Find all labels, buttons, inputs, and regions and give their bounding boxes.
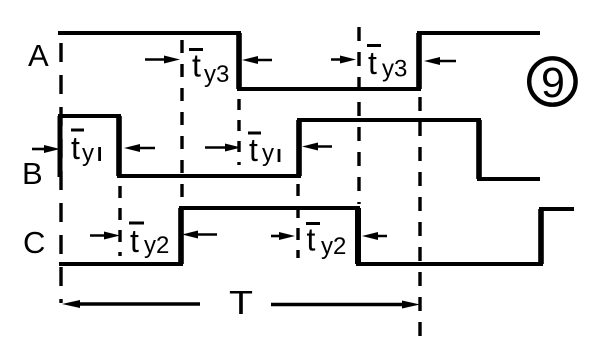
waveform C bbox=[59, 208, 574, 264]
svg-text:y2: y2 bbox=[144, 232, 169, 259]
dashed marker x=238 (A fall) bbox=[237, 99, 240, 165]
label ty3 first bbox=[189, 48, 229, 89]
label ty2 first bbox=[129, 223, 169, 259]
arrow ty3 second right bbox=[424, 57, 456, 65]
svg-text:y2: y2 bbox=[321, 233, 346, 260]
svg-text:t: t bbox=[192, 48, 201, 84]
label ty3 second bbox=[367, 45, 407, 83]
dashed marker x=60 (t0) bbox=[59, 43, 62, 303]
figure number 9 (circled) bbox=[529, 58, 575, 107]
svg-text:y: y bbox=[82, 140, 94, 167]
arrow ty2 first left bbox=[90, 232, 120, 240]
svg-text:y: y bbox=[262, 140, 274, 167]
arrow ty1 second right bbox=[302, 143, 332, 151]
waveform A bbox=[58, 33, 540, 89]
arrow ty2 first right bbox=[182, 231, 217, 239]
dimension line T left segment with left arrowhead bbox=[62, 300, 200, 308]
svg-text:C: C bbox=[23, 225, 45, 260]
svg-text:A: A bbox=[28, 38, 49, 73]
label ty1 second bbox=[248, 132, 280, 168]
svg-text:t: t bbox=[307, 222, 316, 258]
svg-text:y3: y3 bbox=[382, 56, 407, 83]
arrow ty1 first right bbox=[124, 144, 155, 152]
waveform B bbox=[60, 116, 540, 179]
arrow ty3 first right bbox=[242, 56, 272, 64]
arrow ty1 second left bbox=[205, 144, 241, 152]
arrow ty3 first left bbox=[145, 56, 180, 64]
dashed marker x=181 (C rise) bbox=[180, 40, 183, 200]
label ty2 second bbox=[306, 222, 346, 261]
arrow ty3 second left bbox=[331, 56, 356, 64]
arrow ty2 second right bbox=[362, 232, 387, 240]
label ty1 first bbox=[71, 130, 101, 167]
dashed marker x=420 (A rise / T end) bbox=[418, 97, 421, 338]
dashed marker x=119 (B fall) bbox=[118, 186, 121, 256]
svg-text:t: t bbox=[71, 130, 80, 166]
svg-text:T: T bbox=[229, 284, 253, 321]
svg-text:t: t bbox=[130, 223, 139, 259]
svg-text:B: B bbox=[22, 156, 43, 191]
svg-text:t: t bbox=[249, 132, 258, 168]
arrow ty2 second left bbox=[271, 232, 295, 240]
svg-text:9: 9 bbox=[541, 59, 565, 107]
dashed marker x=359 (C fall) bbox=[357, 27, 360, 204]
svg-text:y3: y3 bbox=[204, 61, 229, 88]
dimension line T right segment with right arrowhead bbox=[271, 301, 420, 309]
dashed marker x=298 (B rise) bbox=[296, 184, 299, 258]
arrow ty1 first left bbox=[32, 145, 60, 153]
svg-text:t: t bbox=[368, 45, 377, 81]
